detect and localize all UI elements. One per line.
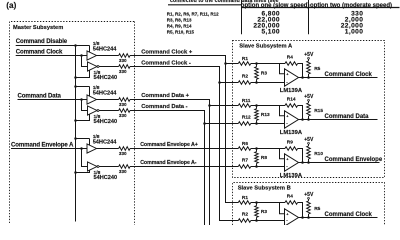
svg-text:54HC240: 54HC240 [94,75,118,81]
svg-text:Command Clock -: Command Clock - [141,60,191,66]
svg-text:R1: R1 [242,56,248,62]
svg-text:5,100: 5,100 [261,28,280,35]
svg-text:Command Clock: Command Clock [325,212,373,218]
svg-text:Command Data -: Command Data - [141,104,187,110]
svg-text:Command Envelope A+: Command Envelope A+ [140,142,198,148]
svg-text:R3: R3 [261,209,267,215]
svg-text:R9: R9 [287,139,293,145]
svg-text:330: 330 [119,58,127,63]
svg-text:LM139A: LM139A [280,88,303,94]
svg-text:Command Envelope: Command Envelope [325,157,383,163]
svg-text:(a): (a) [6,1,16,10]
svg-text:R13: R13 [261,112,270,118]
svg-text:option two (moderate speed): option two (moderate speed) [310,3,392,9]
svg-text:Command Data +: Command Data + [141,93,189,99]
svg-text:Command Data: Command Data [18,92,62,99]
svg-text:330: 330 [119,69,127,74]
svg-text:R4, R9, R14: R4, R9, R14 [167,23,192,28]
svg-text:1,000: 1,000 [345,28,364,35]
svg-text:54HC240: 54HC240 [94,119,118,125]
svg-text:+5V: +5V [304,192,314,198]
svg-text:R15: R15 [314,108,323,114]
svg-text:54HC240: 54HC240 [94,175,118,181]
svg-text:R4: R4 [287,54,293,60]
svg-text:R1: R1 [242,195,248,201]
svg-text:LM139A: LM139A [280,173,303,179]
svg-text:R5, R10, R15: R5, R10, R15 [167,29,195,34]
svg-text:R8: R8 [261,155,267,161]
svg-text:+5V: +5V [304,94,314,100]
svg-text:R3: R3 [261,71,267,77]
svg-text:Slave Subsystem B: Slave Subsystem B [238,186,291,192]
svg-text:+5V: +5V [304,137,314,143]
svg-text:Command Clock: Command Clock [325,72,373,78]
svg-text:54HC244: 54HC244 [93,139,118,145]
svg-text:R12: R12 [242,114,251,120]
svg-text:Command Disable: Command Disable [16,38,68,45]
svg-text:330: 330 [119,151,127,156]
svg-text:option one (slow speed): option one (slow speed) [241,3,310,9]
svg-text:Command Envelope A-: Command Envelope A- [140,160,197,166]
svg-text:R4: R4 [287,193,293,199]
svg-text:R11: R11 [242,98,251,104]
svg-text:Master Subsystem: Master Subsystem [13,25,63,31]
svg-text:Command Envelope A: Command Envelope A [11,141,74,148]
svg-text:Slave Subsystem A: Slave Subsystem A [239,43,292,49]
svg-text:R2: R2 [242,211,248,217]
svg-text:Command Clock: Command Clock [16,48,63,55]
svg-text:+5V: +5V [304,52,314,58]
svg-text:R6: R6 [242,141,248,147]
svg-text:R14: R14 [287,96,296,102]
svg-text:Command Clock +: Command Clock + [141,49,193,55]
svg-text:R10: R10 [314,151,323,157]
svg-text:330: 330 [119,113,127,118]
svg-text:LM139A: LM139A [280,130,303,136]
svg-text:R2: R2 [242,73,248,79]
svg-text:R1, R2, R6, R7, R11, R12: R1, R2, R6, R7, R11, R12 [167,11,219,16]
svg-text:Command Data: Command Data [325,114,370,120]
svg-text:R7: R7 [242,157,248,163]
svg-text:330: 330 [119,169,127,174]
svg-text:R3, R8, R13: R3, R8, R13 [167,17,192,22]
svg-text:R5: R5 [314,66,320,72]
svg-text:54HC244: 54HC244 [93,46,118,52]
svg-text:330: 330 [119,102,127,107]
svg-text:54HC244: 54HC244 [93,90,118,96]
svg-text:R5: R5 [314,206,320,212]
